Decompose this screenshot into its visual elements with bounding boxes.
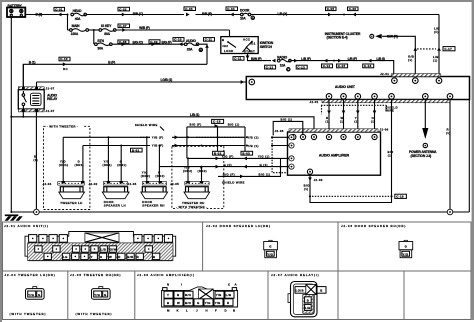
svg-text:Y/G: Y/G (28, 293, 34, 297)
wire B(1) into relay (22, 64, 24, 87)
fuse IG KEY 80A (99, 24, 116, 36)
svg-text:B: B (167, 301, 169, 305)
svg-text:B/G (1): B/G (1) (259, 173, 271, 177)
connector C-14 (322, 64, 333, 68)
connector C-05 (326, 7, 337, 16)
svg-text:RADIO: RADIO (277, 55, 287, 59)
svg-text:(DR1): (DR1) (75, 163, 84, 167)
tweeter LH connector J2-04 (43, 181, 85, 186)
border frame right (472, 2, 474, 320)
svg-text:G (1): G (1) (260, 163, 268, 167)
connector C-06 (348, 7, 359, 16)
svg-text:C-15: C-15 (338, 64, 346, 68)
connector B-02 (213, 151, 225, 155)
svg-text:30A: 30A (97, 46, 103, 50)
door speaker LH connector J2-02 (89, 181, 128, 186)
connector strip J2-06 top (275, 128, 389, 134)
svg-text:LG/B: LG/B (296, 289, 304, 293)
svg-text:C-10: C-10 (60, 57, 68, 61)
svg-text:40A: 40A (75, 17, 81, 21)
bottom pins A B C D E F (326, 94, 332, 100)
connector C-08 (118, 40, 129, 46)
wire to DOOR fuse (196, 14, 242, 16)
rail LH- Y/B to amp pin D (83, 143, 291, 148)
fuse HEAD 40A (71, 9, 87, 21)
wire B/G(2) row (218, 158, 281, 184)
amp pin J ground (307, 169, 312, 174)
svg-text:Y/G: Y/G (403, 252, 409, 256)
door speaker LH SP2 (102, 187, 129, 208)
wire audio unit case to ground rail right end (468, 100, 470, 212)
wire B/R(1) audio unit pin E down (391, 100, 393, 197)
amp left pin F (289, 156, 294, 161)
svg-text:B-01: B-01 (132, 148, 140, 152)
svg-text:B/G (F): B/G (F) (223, 173, 235, 177)
door speaker RH wires (141, 137, 165, 181)
svg-text:J2-07: J2-07 (46, 87, 55, 91)
svg-text:B: B (307, 299, 309, 303)
svg-text:W: W (177, 301, 180, 305)
svg-text:10A: 10A (240, 17, 246, 21)
svg-text:(DR1): (DR1) (103, 163, 112, 167)
ground rail wire (11, 211, 469, 213)
svg-text:(1): (1) (354, 119, 359, 123)
amp left pin G (289, 164, 294, 169)
wire ACC out of switch down to B/W row (248, 54, 272, 61)
svg-text:Y/G: Y/G (94, 293, 100, 297)
amp left pin D (289, 143, 294, 148)
svg-text:M: M (167, 308, 170, 312)
shield wire dashes around amp feeds (321, 104, 386, 106)
svg-text:B/G (F): B/G (F) (190, 123, 202, 127)
ground symbol (5, 216, 23, 221)
svg-text:MAIN: MAIN (72, 24, 81, 28)
connector J2-07 face view (288, 282, 326, 317)
svg-text:100A: 100A (71, 32, 79, 36)
svg-text:J2-06: J2-06 (314, 178, 323, 182)
svg-text:(SECTION E-4): (SECTION E-4) (327, 36, 348, 40)
svg-text:G/W: G/W (110, 247, 117, 251)
connector J2-02 face view (264, 240, 278, 257)
connector J2-04 face view (26, 287, 45, 300)
svg-text:SHIELD WIRE: SHIELD WIRE (135, 123, 158, 127)
svg-text:(F): (F) (434, 30, 439, 34)
svg-text:L/B: L/B (305, 306, 311, 310)
audio relay (18, 87, 58, 114)
wire W/B(F) IG KEY to ignition switch (116, 30, 230, 37)
svg-text:SWITCH: SWITCH (260, 45, 273, 49)
svg-text:J: J (196, 308, 198, 312)
connector C-01 (54, 7, 65, 16)
svg-text:B-03: B-03 (242, 152, 250, 156)
svg-text:B/O: B/O (185, 301, 192, 305)
connector C-02 (118, 7, 130, 16)
wire battery negative down to ground rail (10, 16, 12, 212)
svg-text:(DR2): (DR2) (155, 174, 164, 178)
wire G/W(R) to cluster (375, 34, 382, 39)
svg-text:J2-01: J2-01 (380, 72, 389, 76)
wire B/G row to AUDIO fuse (112, 43, 185, 45)
connector C-09c (204, 38, 215, 42)
svg-text:Y/G (1): Y/G (1) (258, 155, 270, 159)
svg-text:C-19: C-19 (396, 195, 404, 199)
svg-text:(1): (1) (446, 131, 451, 135)
svg-text:HEAD: HEAD (73, 9, 83, 13)
svg-text:G: G (104, 293, 107, 297)
pin K top (436, 78, 442, 84)
wire L/B row radio fuse to audio unit (291, 61, 394, 74)
connector J2-01 face view (25, 232, 176, 261)
connector strip J2-01 top (380, 72, 440, 77)
wire MAIN to IG KEY (89, 29, 100, 31)
node BTN branch (93, 29, 95, 31)
svg-text:N: N (167, 283, 169, 287)
wire AUDIO fuse down to B row (199, 44, 207, 64)
svg-text:J2-01: J2-01 (310, 100, 319, 104)
battery (7, 4, 25, 17)
svg-text:C-09: C-09 (150, 40, 158, 44)
connector C-09b (173, 38, 184, 42)
connector C-09 (149, 40, 160, 46)
pin G top (392, 78, 398, 84)
connector C-18 (212, 119, 224, 123)
svg-text:(WITH TWEETER): (WITH TWEETER) (10, 312, 47, 316)
svg-text:B/R: B/R (127, 255, 134, 259)
svg-text:C-17: C-17 (444, 47, 452, 51)
svg-text:J2-07 AUDIO RELAY(I): J2-07 AUDIO RELAY(I) (271, 273, 319, 277)
svg-text:Y: Y (167, 293, 169, 297)
wire MAIN branch down (67, 15, 69, 31)
svg-text:G: G (269, 245, 272, 249)
svg-text:W: W (109, 255, 112, 259)
svg-text:J2-06: J2-06 (380, 128, 389, 132)
svg-text:B: B (153, 255, 155, 259)
svg-text:W/B (F): W/B (F) (139, 26, 150, 30)
tweeter RH wires (183, 158, 207, 181)
connector J2-05 face view (92, 287, 111, 300)
svg-text:(DR1): (DR1) (117, 163, 126, 167)
fuse AUDIO 20A (184, 39, 202, 52)
svg-text:B: B (200, 48, 202, 52)
svg-text:L/B (I): L/B (I) (376, 57, 384, 61)
border frame left (0, 2, 2, 322)
svg-text:G/W (R): G/W (R) (387, 35, 398, 39)
svg-text:SHIELD WIRE: SHIELD WIRE (222, 180, 245, 184)
wire BTN branch down (93, 30, 95, 44)
svg-text:IG KEY: IG KEY (101, 24, 112, 28)
svg-text:C-03: C-03 (185, 7, 193, 11)
svg-text:J2-06: J2-06 (275, 129, 284, 133)
svg-text:Y/B: Y/B (216, 293, 222, 297)
svg-text:C-10: C-10 (174, 38, 182, 42)
connector B-03 (241, 151, 253, 155)
svg-text:WIRE: WIRE (385, 109, 394, 113)
svg-text:L/B (Y): L/B (Y) (278, 12, 288, 16)
svg-text:B/G (C): B/G (C) (133, 40, 143, 44)
ground splice B (34, 209, 40, 215)
svg-text:Y/G: Y/G (205, 301, 211, 305)
wire relay out left to battery line (22, 112, 24, 117)
fuse DOOR 10A (240, 8, 255, 20)
node junction to MAIN (67, 14, 69, 16)
svg-text:C-04: C-04 (227, 7, 235, 11)
svg-text:B (1): B (1) (29, 61, 36, 65)
wire power antenna feed (409, 100, 437, 158)
connector C-11 (233, 57, 244, 61)
svg-text:L/B (F): L/B (F) (348, 57, 357, 61)
svg-text:J2-01 AUDIO UNIT(I): J2-01 AUDIO UNIT(I) (4, 224, 49, 228)
svg-text:B (F): B (F) (108, 61, 115, 65)
svg-text:Y/B (1): Y/B (1) (247, 144, 259, 148)
wire L/B(1) row relay to amplifier pin A (11, 117, 314, 134)
svg-text:C-13: C-13 (297, 65, 305, 69)
connector C-07 (118, 24, 130, 32)
door speaker LH wires (103, 137, 127, 181)
connector B-01 (131, 148, 143, 152)
dashed option box WITH TWEETER right (172, 146, 224, 209)
audio unit U1 (246, 77, 469, 100)
svg-text:J2-03: J2-03 (128, 182, 137, 186)
svg-text:(1): (1) (371, 119, 376, 123)
tweeter LH wires (59, 137, 84, 181)
svg-text:C-12: C-12 (266, 65, 274, 69)
wire L/B(Y) door fuse to right corner (251, 14, 439, 16)
svg-text:LG/B (1): LG/B (1) (161, 78, 173, 82)
svg-text:RC: RC (63, 67, 68, 71)
svg-text:C-16: C-16 (364, 64, 372, 68)
shield drain dashes to amp (272, 137, 287, 172)
svg-text:C-01: C-01 (55, 7, 63, 11)
amp left pin C (289, 135, 294, 140)
svg-text:J2-03 DOOR SPEAKER RH(DR): J2-03 DOOR SPEAKER RH(DR) (341, 224, 406, 228)
connector C-04 (226, 7, 238, 17)
connector J2-03 face view (399, 240, 413, 257)
svg-text:Y/G: Y/G (267, 252, 273, 256)
svg-text:G: G (405, 245, 408, 249)
wire B/O(1) amp ground bracket (304, 175, 393, 202)
door speaker RH connector J2-03 (128, 181, 167, 186)
svg-text:C-07: C-07 (119, 24, 127, 28)
connector strip J2-01 bottom (310, 100, 451, 105)
wire B(2) battery to junction (25, 14, 67, 16)
svg-text:B/G (1): B/G (1) (281, 118, 293, 122)
svg-text:O: O (100, 255, 103, 259)
wire B row left to relay (23, 64, 207, 87)
svg-text:(DR1): (DR1) (59, 163, 68, 167)
svg-text:(DR2): (DR2) (141, 174, 150, 178)
svg-text:B/G (F): B/G (F) (162, 40, 172, 44)
svg-text:C-11: C-11 (205, 38, 213, 42)
node on L/B wire (343, 14, 345, 16)
fuse BTN 30A (95, 39, 113, 50)
wire R(1) audio unit to ground (449, 100, 451, 210)
svg-text:F: F (215, 308, 217, 312)
connector C-17 dashed crossing (414, 47, 456, 51)
svg-text:80A: 80A (104, 32, 110, 36)
svg-text:J2-05 TWEETER RH(DR): J2-05 TWEETER RH(DR) (70, 273, 121, 277)
shield wire label left (133, 122, 167, 131)
pin I top (413, 78, 419, 84)
svg-text:(DR2): (DR2) (198, 169, 207, 173)
svg-text:L/B: L/B (226, 293, 232, 297)
rail LH+ Y/B to amp pin C (63, 135, 291, 140)
svg-text:B-02: B-02 (214, 152, 222, 156)
tweeter RH connector J2-05 (170, 181, 209, 186)
svg-text:IG2: IG2 (223, 44, 229, 48)
fuse MAIN 100A (68, 24, 89, 36)
tweeter RH speaker SP4 (182, 187, 210, 205)
svg-text:B: B (177, 293, 179, 297)
wire LG/B down to relay (36, 82, 38, 87)
svg-text:B: B (233, 308, 235, 312)
svg-text:Y/B: Y/B (215, 301, 221, 305)
svg-text:B: B (320, 289, 322, 293)
svg-text:TWEETER LH: TWEETER LH (60, 201, 82, 205)
svg-text:AUDIO: AUDIO (186, 39, 196, 43)
svg-text:Y/B (1): Y/B (1) (247, 136, 259, 140)
svg-text:L/B (1): L/B (1) (190, 113, 199, 117)
door speaker RH SP3 (141, 187, 168, 208)
connector C-12 (265, 65, 276, 69)
svg-text:(1): (1) (388, 154, 393, 158)
tweeter LH speaker SP1 (59, 187, 85, 205)
svg-text:10A: 10A (280, 63, 286, 67)
svg-text:(SECTION J-3): (SECTION J-3) (411, 154, 432, 158)
svg-text:J2-02 DOOR SPEAKER LH(DR): J2-02 DOOR SPEAKER LH(DR) (206, 224, 271, 228)
svg-text:G: G (38, 293, 41, 297)
border frame top (0, 0, 474, 2)
svg-text:Y: Y (91, 255, 93, 259)
ignition switch (221, 37, 274, 54)
connector J2-06 face view (162, 283, 238, 313)
wire L/B(F) down right side to audio unit (438, 15, 440, 75)
connector table grid (3, 222, 472, 320)
svg-text:(1): (1) (340, 119, 345, 123)
svg-text:G (F): G (F) (224, 163, 233, 167)
wire HEAD fuse to C-02 (87, 14, 185, 16)
connector C-10 (59, 57, 70, 71)
svg-text:D: D (225, 308, 227, 312)
svg-text:SPEAKER LH: SPEAKER LH (104, 204, 126, 208)
svg-text:B/R (C): B/R (C) (133, 12, 143, 16)
svg-text:(1): (1) (304, 187, 309, 191)
svg-text:C-02: C-02 (119, 7, 127, 11)
svg-text:(WITH TWEETER): (WITH TWEETER) (76, 312, 113, 316)
svg-text:C-18: C-18 (213, 120, 221, 124)
svg-text:J2-04: J2-04 (43, 182, 52, 186)
svg-text:Y/B (F): Y/B (F) (152, 144, 164, 148)
dashed option box WITH TWEETER left (44, 123, 90, 209)
wire Y/G row RH+ to amp pin F (187, 155, 289, 161)
connector C-03 (184, 7, 196, 17)
wire B/G bridge row (186, 123, 245, 159)
svg-text:C-05: C-05 (327, 7, 335, 11)
svg-text:- WITH TWEETER -: - WITH TWEETER - (176, 205, 207, 209)
svg-text:J2-02: J2-02 (89, 182, 98, 186)
svg-text:(1): (1) (408, 58, 413, 62)
svg-text:AUDIO AMPLIFIER: AUDIO AMPLIFIER (319, 153, 350, 157)
fuse RADIO 10A (277, 55, 291, 71)
svg-text:J2-07: J2-07 (46, 109, 55, 113)
svg-text:C-06: C-06 (349, 7, 357, 11)
svg-text:B/W (F): B/W (F) (251, 57, 262, 61)
wire LG/B(1) relay to audio unit (37, 81, 247, 83)
connector C-19 (395, 194, 407, 198)
svg-text:B: B (222, 38, 224, 42)
svg-text:LOCK: LOCK (224, 49, 234, 53)
svg-text:DOOR: DOOR (240, 8, 250, 12)
instrument cluster (325, 32, 374, 40)
svg-text:TWEETER RH: TWEETER RH (182, 201, 205, 205)
svg-text:J2-04 TWEETER LH(DR): J2-04 TWEETER LH(DR) (5, 273, 56, 277)
svg-text:L/B (F): L/B (F) (301, 57, 310, 61)
svg-text:H: H (206, 308, 208, 312)
connector C-16 (363, 64, 374, 68)
ground splice D (447, 209, 453, 215)
svg-text:B/O: B/O (185, 293, 192, 297)
svg-text:C-11: C-11 (234, 57, 242, 61)
wire relay coil to ground (35, 112, 37, 209)
wire B/G bridge to amp pin I (273, 118, 303, 136)
svg-text:(1): (1) (433, 59, 438, 63)
svg-text:C-14: C-14 (323, 64, 331, 68)
pin P left (249, 79, 255, 85)
svg-text:J2-05: J2-05 (170, 182, 179, 186)
svg-text:(DR2): (DR2) (183, 169, 192, 173)
svg-text:LG: LG (63, 255, 68, 259)
audio amplifier (288, 132, 381, 175)
svg-text:20A: 20A (187, 48, 193, 52)
svg-text:L: L (186, 308, 188, 312)
svg-text:SPEAKER RH: SPEAKER RH (142, 204, 164, 208)
svg-text:I: I (181, 283, 182, 287)
svg-text:(1): (1) (33, 158, 38, 162)
svg-text:- WITH TWEETER -: - WITH TWEETER - (47, 124, 78, 128)
svg-text:B/G (1): B/G (1) (228, 123, 240, 127)
connector C-13 (296, 65, 307, 69)
svg-text:G: G (197, 301, 200, 305)
amp top pins C I A G L N M (291, 134, 296, 139)
svg-text:L/B: L/B (101, 247, 107, 251)
svg-text:Y/B (F): Y/B (F) (152, 135, 164, 139)
svg-text:J2-06 AUDIO AMPLIFIER(I): J2-06 AUDIO AMPLIFIER(I) (137, 273, 195, 277)
connector C-15 (337, 64, 348, 68)
svg-text:B (2): B (2) (36, 13, 43, 17)
wires speaker feeds audio unit to amp (325, 100, 376, 129)
svg-text:AUDIO UNIT: AUDIO UNIT (335, 85, 356, 89)
wire G row RH- to amp pin G (159, 163, 289, 169)
svg-text:RELAY: RELAY (47, 97, 58, 101)
svg-text:(1): (1) (325, 119, 330, 123)
